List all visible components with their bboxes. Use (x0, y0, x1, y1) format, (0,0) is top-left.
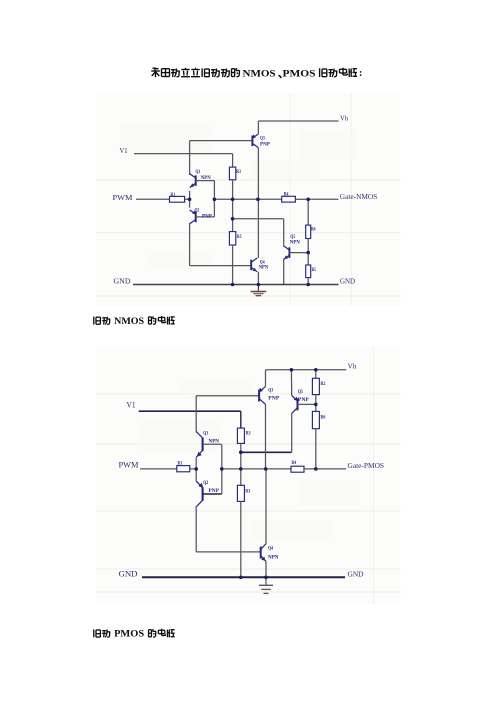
svg-text:PNP: PNP (202, 214, 212, 219)
svg-text:R2: R2 (321, 382, 326, 387)
svg-text:R3: R3 (236, 170, 241, 175)
svg-text:PWM: PWM (113, 193, 133, 202)
svg-text:V1: V1 (127, 401, 136, 410)
svg-text:R5: R5 (312, 268, 317, 273)
svg-text:R5: R5 (237, 235, 242, 240)
svg-text:PNP: PNP (298, 398, 309, 403)
svg-text:Q2: Q2 (195, 208, 200, 213)
svg-text:R1: R1 (178, 461, 183, 466)
svg-text:GND: GND (119, 570, 138, 579)
svg-text:NPN: NPN (268, 555, 279, 560)
svg-text:Gate-PMOS: Gate-PMOS (348, 461, 385, 470)
svg-text:PNP: PNP (268, 396, 279, 401)
svg-text:PNP: PNP (209, 489, 220, 494)
svg-text:R6: R6 (311, 228, 316, 233)
svg-text:GND: GND (114, 276, 131, 285)
svg-text:PNP: PNP (260, 142, 270, 147)
svg-text:Q3: Q3 (268, 388, 273, 393)
svg-text:NPN: NPN (201, 176, 211, 181)
svg-text:PMOS: PMOS (283, 68, 317, 79)
svg-text:NPN: NPN (290, 240, 300, 245)
svg-text:V1: V1 (120, 146, 128, 155)
svg-text:PMOS: PMOS (114, 629, 144, 639)
svg-text::: : (359, 68, 362, 79)
svg-text:Q2: Q2 (203, 481, 208, 486)
svg-text:Q5: Q5 (298, 390, 303, 395)
svg-text:R4: R4 (292, 461, 297, 466)
svg-text:GND: GND (340, 276, 356, 285)
svg-text:R6: R6 (321, 416, 326, 421)
svg-text:Q1: Q1 (196, 170, 201, 175)
svg-text:Vh: Vh (348, 361, 357, 370)
svg-text:GND: GND (348, 570, 365, 579)
svg-text:Q4: Q4 (268, 547, 273, 552)
svg-text:NMOS: NMOS (243, 68, 277, 79)
svg-text:R3: R3 (246, 432, 251, 437)
svg-text:NPN: NPN (259, 265, 269, 270)
svg-text:R1: R1 (171, 193, 176, 198)
svg-text:NMOS: NMOS (114, 316, 144, 326)
svg-text:R4: R4 (284, 192, 289, 197)
svg-text:Gate-NMOS: Gate-NMOS (340, 192, 378, 201)
svg-text:NPN: NPN (209, 440, 220, 445)
svg-text:PWM: PWM (119, 460, 139, 469)
svg-text:R3: R3 (245, 489, 250, 494)
svg-text:Q3: Q3 (260, 137, 265, 142)
svg-text:Vh: Vh (340, 114, 348, 123)
svg-text:Q1: Q1 (203, 432, 208, 437)
